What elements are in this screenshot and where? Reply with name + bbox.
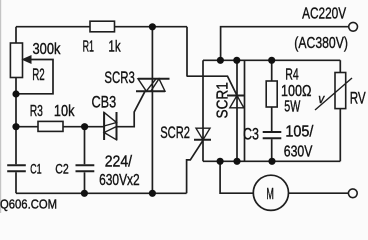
triac SCR3 — [136, 79, 170, 91]
node top bus AC riser — [217, 57, 224, 64]
wire bottom left — [16, 192, 187, 194]
wire bottom bus right — [203, 160, 340, 162]
diac CB3 — [104, 112, 116, 140]
node R3 right / C2 — [81, 123, 88, 130]
wire R3 row — [16, 91, 145, 126]
svg-text:105/: 105/ — [285, 123, 313, 140]
box right edge — [244, 60, 246, 161]
svg-text:300k: 300k — [33, 41, 61, 58]
node top bus SCR1 — [233, 57, 240, 64]
resistor R4 — [271, 60, 273, 131]
potentiometer R2 wiper — [16, 60, 53, 94]
terminal bottom right — [348, 189, 357, 198]
node R3 left — [12, 123, 19, 130]
svg-text:AC220V: AC220V — [302, 6, 347, 23]
capacitor C1 — [7, 165, 26, 171]
node R2 wiper join — [12, 90, 19, 97]
wire top bus left — [16, 26, 187, 28]
svg-text:R3: R3 — [30, 103, 43, 120]
node bottom bus SCR1 — [233, 158, 240, 165]
node bottom bus motor riser — [217, 158, 224, 165]
svg-text:SCR1: SCR1 — [215, 82, 232, 118]
resistor R3 — [38, 121, 63, 131]
node top bus / SCR3 — [149, 23, 156, 30]
svg-text:5W: 5W — [284, 99, 301, 116]
thyristor SCR2 — [196, 128, 210, 140]
node SCR3 bottom — [149, 190, 156, 197]
node top bus R4 — [268, 57, 275, 64]
wire left rail — [15, 27, 17, 194]
svg-text:630V: 630V — [284, 144, 313, 161]
motor M — [253, 175, 288, 210]
wire SCR2 column (box left edge) — [202, 60, 204, 161]
resistor R1 — [90, 21, 115, 32]
svg-text:100Ω: 100Ω — [281, 83, 312, 100]
capacitor C2 — [84, 127, 86, 194]
svg-text:1k: 1k — [108, 38, 120, 55]
svg-text:C1: C1 — [30, 160, 42, 176]
svg-text:224/: 224/ — [105, 153, 133, 170]
varistor RV — [339, 60, 341, 161]
thyristor SCR1 — [236, 60, 238, 161]
node bottom bus C3 — [268, 158, 275, 165]
svg-text:R1: R1 — [83, 38, 94, 55]
svg-text:M: M — [266, 186, 274, 203]
wire top bus right — [203, 59, 340, 61]
svg-text:630Vx2: 630Vx2 — [99, 172, 140, 189]
wire riser to SCR1 gate — [187, 27, 237, 96]
svg-text:R2: R2 — [32, 65, 45, 84]
left scan border — [0, 0, 1, 213]
svg-text:R4: R4 — [285, 66, 299, 83]
terminal AC220V — [349, 22, 358, 31]
svg-text:SCR3: SCR3 — [104, 68, 134, 87]
svg-text:C2: C2 — [55, 160, 69, 176]
capacitor C3 — [263, 132, 282, 138]
potentiometer R2 body — [10, 43, 22, 78]
wire AC220V lead — [221, 27, 349, 61]
node C2 bottom — [81, 190, 88, 197]
svg-text:RV: RV — [350, 89, 366, 108]
wire motor loop — [220, 161, 348, 193]
wire SCR2 gate riser — [187, 140, 203, 193]
svg-text:SCR2: SCR2 — [160, 123, 190, 142]
svg-text:CB3: CB3 — [92, 92, 117, 111]
svg-text:10k: 10k — [54, 103, 75, 120]
wire SCR3 column — [151, 27, 153, 194]
svg-text:C3: C3 — [243, 124, 259, 143]
svg-text:Q606.COM: Q606.COM — [0, 197, 57, 212]
svg-text:(AC380V): (AC380V) — [294, 35, 348, 52]
